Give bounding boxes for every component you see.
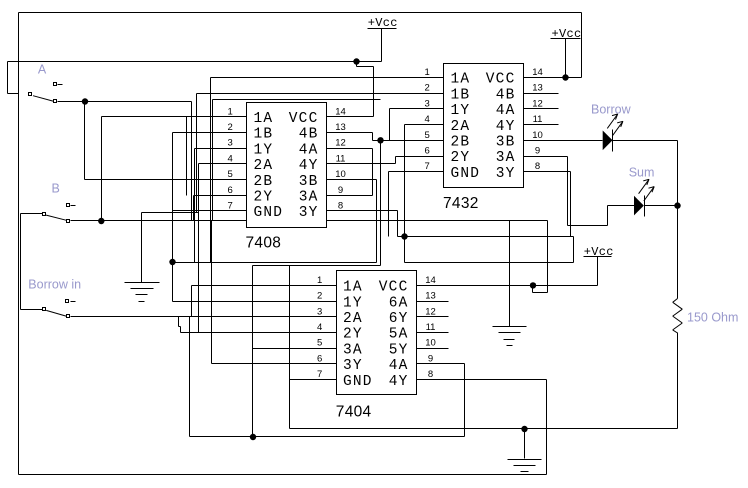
wire trunk row: [213, 99, 381, 101]
wire ground2 riser: [509, 221, 511, 327]
wire 7404 pin13 stub: [417, 301, 449, 303]
wire 7404 pin9 loop: [190, 364, 465, 437]
svg-text:5Y: 5Y: [389, 342, 409, 358]
node Sum output junction: [674, 202, 680, 208]
wire 7432 pin2 drop: [196, 94, 198, 213]
svg-text:1: 1: [425, 67, 430, 78]
LED D2 Sum: [634, 179, 654, 216]
svg-text:4A: 4A: [299, 142, 319, 158]
wire 7408 pin2 to 7404 pin2: [173, 133, 337, 302]
node bottom row junction: [250, 434, 256, 440]
svg-text:Sum: Sum: [629, 166, 655, 180]
svg-text:4A: 4A: [496, 103, 516, 119]
svg-text:7: 7: [228, 201, 233, 212]
wire resistor bottom lead: [290, 333, 678, 429]
svg-text:2: 2: [317, 291, 322, 302]
wire row262 right riser: [573, 237, 575, 263]
svg-text:13: 13: [335, 122, 346, 133]
svg-text:150 Ohm: 150 Ohm: [687, 311, 738, 325]
wire 7404 pin12 stub: [417, 316, 449, 318]
power +Vcc supply 2: [551, 27, 582, 41]
wire 7404 GND riser: [289, 266, 291, 429]
svg-text:2A: 2A: [343, 311, 363, 327]
svg-text:5: 5: [425, 130, 430, 141]
svg-text:13: 13: [532, 83, 543, 94]
wire right rail drop to Vcc node: [566, 13, 582, 78]
wire Borrow-in drop to row437: [189, 317, 191, 437]
svg-text:14: 14: [425, 275, 436, 286]
wire ground1 row: [142, 212, 199, 214]
wire 7432 pin13 stub: [524, 93, 559, 95]
svg-text:1: 1: [228, 106, 233, 117]
svg-text:3: 3: [228, 138, 233, 149]
wire 7432 pin10 to Borrow LED: [524, 140, 603, 142]
wire pin4 jog: [179, 317, 181, 333]
svg-text:VCC: VCC: [379, 280, 409, 296]
svg-text:B: B: [52, 182, 60, 196]
wire B jog down: [533, 221, 548, 293]
wire resistor top lead: [677, 206, 679, 299]
svg-text:7: 7: [317, 369, 322, 380]
svg-text:4B: 4B: [496, 87, 516, 103]
wire pin1 row drop: [186, 117, 188, 196]
wire 7408 pin3: [195, 149, 247, 263]
node trunk junction: [401, 233, 407, 239]
wire G1 chain to 7404 pin4: [199, 213, 337, 333]
svg-text:12: 12: [335, 138, 346, 149]
wire 7408 pin14 VCC: [327, 62, 374, 117]
wire B row: [71, 220, 548, 222]
node Vcc3 junction: [530, 282, 536, 288]
wire 7408 pin7 GND: [173, 210, 247, 212]
svg-text:5: 5: [228, 169, 233, 180]
svg-text:3: 3: [425, 98, 430, 109]
svg-text:5A: 5A: [389, 327, 409, 343]
svg-text:3B: 3B: [496, 135, 516, 151]
wire 7432 pin1: [211, 78, 444, 263]
wire A input bracket: [8, 62, 19, 94]
svg-text:Borrow in: Borrow in: [28, 278, 81, 292]
wire Vcc1 riser: [381, 29, 383, 62]
node Vcc2 junction: [562, 74, 568, 80]
svg-text:1A: 1A: [254, 111, 274, 127]
node 7432 pin5 junction: [377, 137, 383, 143]
svg-text:4: 4: [228, 153, 233, 164]
svg-text:5: 5: [317, 338, 322, 349]
LED D1 Borrow: [603, 114, 623, 152]
svg-text:2A: 2A: [254, 158, 274, 174]
wire bottom rail: [19, 474, 547, 476]
wire A to 7408 pin5: [85, 102, 247, 180]
svg-text:14: 14: [532, 67, 543, 78]
svg-text:2Y: 2Y: [451, 150, 471, 166]
ground G3: [508, 460, 542, 472]
ground G2: [493, 327, 527, 346]
svg-text:GND: GND: [254, 205, 284, 221]
svg-text:4: 4: [317, 322, 322, 333]
svg-text:2: 2: [228, 122, 233, 133]
svg-text:9: 9: [428, 353, 433, 364]
wire row 262 right: [405, 262, 574, 264]
switch S1 input A: [29, 83, 63, 103]
svg-text:3B: 3B: [299, 174, 319, 190]
svg-text:7408: 7408: [246, 235, 282, 252]
wire 7432 pin9 to Sum LED: [524, 157, 635, 226]
svg-text:2B: 2B: [451, 135, 471, 151]
wire 7404 pin10 stub: [417, 348, 449, 350]
svg-text:11: 11: [336, 153, 346, 164]
svg-text:3A: 3A: [343, 342, 363, 358]
svg-text:11: 11: [533, 114, 543, 125]
wire 7408 pin13 to 7432 pin5: [327, 133, 381, 141]
IC U1 7408 quad AND gate: [228, 103, 346, 252]
wire Vcc rail: [8, 61, 382, 63]
wire row 262 left: [173, 262, 377, 264]
svg-text:12: 12: [425, 306, 436, 317]
wire 7404 pin5 row: [253, 348, 337, 350]
wire 7404 pin14 row: [417, 285, 598, 287]
wire 7408 pin10 drop: [327, 180, 377, 263]
svg-text:6Y: 6Y: [389, 311, 409, 327]
svg-text:9: 9: [535, 146, 540, 157]
svg-text:3Y: 3Y: [299, 205, 319, 221]
wire 7432 pin5: [381, 140, 444, 142]
wire B to 7408 pin1: [102, 117, 247, 221]
svg-text:VCC: VCC: [289, 111, 319, 127]
IC U3 7404 hex inverter: [317, 271, 436, 421]
svg-text:A: A: [38, 62, 47, 76]
svg-text:10: 10: [335, 169, 346, 180]
svg-text:6: 6: [425, 146, 430, 157]
svg-text:1A: 1A: [451, 72, 471, 88]
svg-text:6A: 6A: [389, 295, 409, 311]
wire B drop to 7404 pin6: [212, 221, 337, 364]
svg-text:8: 8: [428, 369, 433, 380]
wire 7432 pin4: [405, 125, 444, 263]
resistor R1 150 Ohm: [673, 299, 683, 334]
wire row 236: [398, 236, 574, 238]
wire 7404 pin5 riser: [252, 266, 254, 437]
ground G1: [125, 283, 160, 302]
wire 7404 pin7 GND: [290, 379, 337, 381]
wire 7408 pin11 to 7432 pin6: [327, 157, 444, 164]
svg-text:4Y: 4Y: [496, 119, 516, 135]
svg-text:10: 10: [425, 338, 436, 349]
svg-text:VCC: VCC: [486, 72, 516, 88]
svg-text:1Y: 1Y: [343, 295, 363, 311]
svg-text:2A: 2A: [451, 119, 471, 135]
svg-text:7404: 7404: [336, 404, 372, 421]
svg-text:4B: 4B: [299, 127, 319, 143]
power +Vcc supply 3: [584, 245, 614, 259]
node B junction: [98, 218, 104, 224]
svg-text:1Y: 1Y: [254, 142, 274, 158]
node Vcc rail junction: [353, 58, 359, 64]
wire A drop to B row: [191, 102, 193, 221]
svg-text:3: 3: [317, 306, 322, 317]
svg-text:11: 11: [426, 322, 436, 333]
svg-text:3Y: 3Y: [343, 358, 363, 374]
wire 7408 pin6: [194, 196, 247, 221]
svg-text:GND: GND: [343, 374, 373, 390]
wire top rail: [19, 12, 582, 14]
wire 7432 pin14 VCC: [524, 77, 566, 79]
wire 7432 pin12 stub: [524, 108, 559, 110]
svg-text:3A: 3A: [496, 150, 516, 166]
wire Borrow-in row to 7404 pin3: [71, 316, 337, 318]
wire 7432 pin3: [390, 109, 444, 141]
wire A switch output row: [58, 101, 192, 103]
svg-text:13: 13: [425, 291, 436, 302]
svg-text:+Vcc: +Vcc: [552, 27, 582, 41]
wire 7432 pin5 drop: [380, 141, 382, 266]
svg-text:1: 1: [317, 275, 322, 286]
wire ground1 riser: [141, 213, 143, 283]
wire 7408 pin12 to pin9: [327, 149, 373, 196]
svg-text:1A: 1A: [343, 280, 363, 296]
svg-text:4Y: 4Y: [299, 158, 319, 174]
wire Vcc2 riser: [565, 39, 567, 78]
svg-text:+Vcc: +Vcc: [584, 245, 614, 259]
svg-text:9: 9: [338, 185, 343, 196]
svg-text:2Y: 2Y: [343, 327, 363, 343]
svg-text:3A: 3A: [299, 190, 319, 206]
wire ground3 riser: [524, 429, 526, 459]
svg-text:2B: 2B: [254, 174, 274, 190]
svg-text:10: 10: [532, 130, 543, 141]
wire 7432 pin2: [197, 93, 444, 95]
svg-text:8: 8: [535, 161, 540, 172]
svg-text:4Y: 4Y: [389, 374, 409, 390]
svg-text:6: 6: [317, 353, 322, 364]
wire 7432 pin8 drop: [524, 172, 571, 237]
node ground3 junction: [521, 426, 527, 432]
svg-text:6: 6: [228, 185, 233, 196]
wire 7404 pin11 stub: [417, 332, 449, 334]
node A junction: [82, 98, 88, 104]
power +Vcc supply 1: [368, 16, 398, 30]
svg-text:3Y: 3Y: [496, 166, 516, 182]
wire trunk drop: [212, 100, 214, 221]
svg-text:7432: 7432: [443, 195, 479, 212]
switch S3 Borrow in: [43, 300, 76, 318]
wire 7432 pin11 stub: [524, 124, 559, 126]
svg-text:1B: 1B: [451, 87, 471, 103]
wire left rail: [18, 13, 20, 475]
wire 7408 pin4 corner: [199, 164, 247, 213]
wire 7404 pin8 loop: [417, 380, 547, 475]
IC U2 7432 quad OR gate: [425, 64, 543, 213]
wire row 265 to 7404 pin5 riser: [253, 265, 381, 267]
wire Borrow LED cathode to corner: [613, 141, 678, 206]
node row262 junction: [169, 259, 175, 265]
svg-text:+Vcc: +Vcc: [368, 16, 398, 30]
svg-text:8: 8: [338, 201, 343, 212]
wire B common drop: [20, 214, 22, 310]
svg-text:GND: GND: [451, 166, 481, 182]
switch S2 input B: [43, 204, 76, 223]
svg-text:2Y: 2Y: [254, 190, 274, 206]
wire 7404 pin4 jog to Borrow-in: [181, 332, 199, 334]
wire Vcc3 riser: [597, 257, 599, 286]
svg-text:1Y: 1Y: [451, 103, 471, 119]
wire 7404 pin1 riser: [192, 286, 337, 317]
wire 7432 pin7 GND: [389, 172, 444, 237]
svg-text:1B: 1B: [254, 127, 274, 143]
svg-text:2: 2: [425, 83, 430, 94]
svg-text:Borrow: Borrow: [591, 103, 632, 117]
svg-text:7: 7: [425, 161, 430, 172]
svg-text:4: 4: [425, 114, 430, 125]
wire 7408 pin8 drop: [327, 211, 398, 237]
wire B common: [21, 213, 43, 215]
svg-text:14: 14: [335, 106, 346, 117]
svg-text:12: 12: [532, 98, 543, 109]
svg-text:4A: 4A: [389, 358, 409, 374]
wire Borrow-in common: [21, 309, 43, 311]
wire Sum LED cathode: [645, 205, 678, 207]
